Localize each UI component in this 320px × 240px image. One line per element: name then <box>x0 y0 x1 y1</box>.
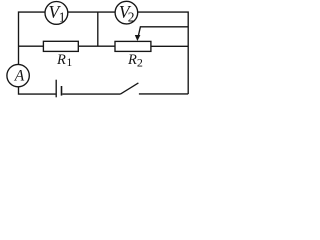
svg-text:2: 2 <box>128 9 135 24</box>
svg-text:A: A <box>14 67 25 84</box>
resistor R2 (rheostat body) <box>115 41 151 69</box>
wire from V2 to top-right corner, right rail down to bottom-right corner <box>138 12 189 94</box>
wire: middle vertical junction between meters row and resistor row <box>97 12 99 46</box>
wire: battery to switch pivot <box>62 93 120 95</box>
svg-text:R: R <box>127 52 137 68</box>
wire: left rail to R1 left terminal <box>19 45 44 47</box>
wire between R1 and R2 <box>78 45 115 47</box>
resistor R1 <box>43 41 78 69</box>
wire between V1 and V2 <box>68 11 116 13</box>
battery cell: long plate (positive) <box>55 80 57 98</box>
wire: switch contact to bottom-right corner <box>139 93 188 95</box>
voltmeter V1 <box>45 2 68 25</box>
ammeter A <box>7 64 29 86</box>
switch (open) blade <box>120 83 138 94</box>
voltmeter V2 <box>115 1 138 24</box>
rheostat wiper arrow with wire to right rail <box>135 27 188 41</box>
battery cell: short plate (negative) <box>61 86 63 96</box>
wire: R2 right terminal to right rail <box>151 45 188 47</box>
wire: top-left corner, left rail down to ammeter top <box>19 12 46 64</box>
wire: ammeter bottom to bottom-left corner, then to battery <box>19 87 56 94</box>
svg-text:2: 2 <box>137 55 143 69</box>
svg-text:1: 1 <box>67 57 73 69</box>
svg-text:R: R <box>56 52 66 68</box>
svg-text:1: 1 <box>59 9 66 24</box>
